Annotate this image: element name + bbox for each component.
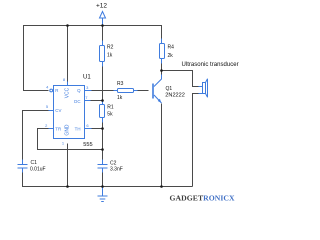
svg-text:CV: CV [55, 108, 61, 113]
svg-text:GADGETRONICX: GADGETRONICX [170, 194, 236, 203]
svg-text:Q: Q [77, 88, 81, 93]
svg-text:555: 555 [83, 142, 92, 148]
svg-text:U1: U1 [83, 74, 91, 80]
svg-text:R1: R1 [107, 104, 114, 110]
svg-text:DC: DC [74, 99, 80, 104]
svg-text:R2: R2 [107, 45, 114, 51]
svg-text:R3: R3 [117, 81, 124, 87]
svg-text:1k: 1k [107, 52, 113, 58]
svg-text:2N2222: 2N2222 [165, 93, 185, 99]
svg-text:+12: +12 [96, 2, 107, 9]
svg-text:TH: TH [75, 126, 81, 131]
svg-text:3.3nF: 3.3nF [110, 167, 123, 173]
svg-text:R: R [55, 88, 58, 93]
svg-text:1k: 1k [117, 95, 123, 101]
svg-text:0.01uF: 0.01uF [30, 167, 46, 173]
svg-text:TR: TR [55, 126, 61, 131]
svg-text:C1: C1 [31, 160, 38, 166]
svg-text:GND: GND [65, 124, 71, 136]
svg-text:5k: 5k [107, 111, 113, 117]
svg-text:Q1: Q1 [166, 86, 173, 92]
svg-text:VCC: VCC [65, 87, 71, 98]
svg-text:R4: R4 [168, 45, 175, 51]
svg-text:2k: 2k [168, 53, 174, 59]
svg-text:Ultrasonic transducer: Ultrasonic transducer [182, 62, 239, 68]
